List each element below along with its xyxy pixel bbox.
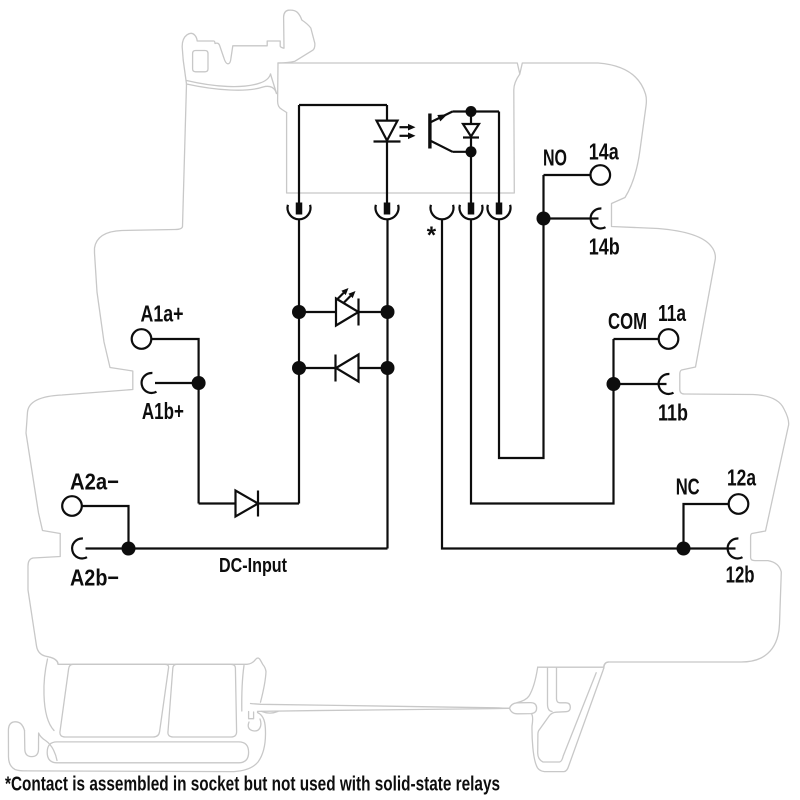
svg-text:14a: 14a <box>589 139 619 165</box>
relay pin 1 blade <box>296 203 303 215</box>
wire diode rung left <box>299 367 336 369</box>
node top of flyback diode <box>466 106 477 117</box>
DIN rail lip tab <box>510 703 537 714</box>
wire series diode to left rail <box>258 502 299 504</box>
foot release hook outer <box>8 722 26 771</box>
wire A1b tap <box>155 382 199 384</box>
LED emission arrow 2 <box>344 296 351 303</box>
svg-text:11a: 11a <box>658 300 686 326</box>
foot latch curl <box>248 719 261 731</box>
wire 12 node up to 12a <box>684 504 729 549</box>
wire 14 node to 14a <box>544 174 591 176</box>
LED emission arrow 1 <box>337 293 344 300</box>
foot latch steps <box>249 712 254 719</box>
wire opto-LED right drop <box>386 105 388 121</box>
test socket 12b <box>728 538 743 558</box>
terminal A2a <box>62 496 82 516</box>
clip saddle spring upper line <box>187 74 271 87</box>
wire opto-LED cathode drop to pin <box>386 142 388 204</box>
clip window opening <box>193 51 208 72</box>
relay pin 3 blade <box>468 203 475 215</box>
svg-text:14b: 14b <box>589 234 620 260</box>
wire output right drop to pin <box>498 112 500 204</box>
relay module housing outline left profile <box>26 84 187 664</box>
svg-text:A2b−: A2b− <box>70 564 119 590</box>
opto light emission arrow 2 <box>400 135 409 137</box>
foot release hook pocket <box>25 731 58 761</box>
relay module housing top and right profile <box>278 63 789 669</box>
wire emitter node drop to pin <box>470 152 472 203</box>
rail clamp left flare <box>517 667 538 702</box>
wire opto-LED left drop to pin <box>298 105 300 203</box>
pin socket at x=299 <box>288 205 311 220</box>
pin socket at x=471 <box>460 205 483 220</box>
junction 11 <box>607 377 621 391</box>
junction A2 <box>122 542 136 556</box>
housing foot top edge <box>47 657 266 703</box>
status LED D2 <box>336 299 359 326</box>
foot left outer wall <box>44 659 54 731</box>
foot slide bar <box>47 742 248 763</box>
junction 12 <box>677 542 691 556</box>
svg-text:*Contact is assembled in socke: *Contact is assembled in socket but not … <box>5 774 500 796</box>
terminal 12a <box>729 494 749 514</box>
node bottom of flyback diode <box>466 146 477 157</box>
wire diode rung right <box>359 367 388 369</box>
test socket 14b <box>591 208 606 228</box>
svg-text:A1a+: A1a+ <box>141 300 184 326</box>
test socket 11b <box>659 374 674 394</box>
wire right rail <box>386 219 388 549</box>
terminal 14a <box>591 165 611 185</box>
junction diode rung left <box>292 361 306 375</box>
junction A1 <box>192 376 206 390</box>
foot inner wall right <box>242 666 244 712</box>
reverse protection diode D3 <box>336 355 359 382</box>
clip saddle wedge <box>271 74 277 94</box>
plug-in relay box outline <box>287 74 520 193</box>
DIN rail top edge <box>251 704 510 709</box>
wire 14b tap <box>544 217 599 219</box>
svg-text:A2a−: A2a− <box>70 468 119 494</box>
svg-text:11b: 11b <box>658 400 688 426</box>
DIN rail joint wedge <box>262 711 279 713</box>
wire LED rung right <box>359 311 388 313</box>
foot left panel <box>60 664 169 737</box>
svg-text:*: * <box>427 222 437 249</box>
foot right panel <box>168 664 237 737</box>
foot outer right edge below rail <box>26 713 266 772</box>
rail clamp inner slot left wall <box>548 667 553 711</box>
wire DC-input minus rail <box>129 547 388 549</box>
wire A2b tap <box>86 547 129 549</box>
phototransistor emitter lead <box>430 141 453 152</box>
wire A1 junction drop <box>198 383 200 504</box>
wire A1a to corner <box>152 339 199 383</box>
wire 11 node to 11a <box>614 338 659 340</box>
pin socket at x=499 <box>488 205 511 220</box>
DIN-rail release clip (top of module) <box>182 10 315 84</box>
junction diode rung right <box>381 361 395 375</box>
test socket A2b <box>72 538 87 558</box>
wire NO pin to 14 node <box>499 175 544 458</box>
svg-text:NC: NC <box>676 474 700 500</box>
wire left rail A1 <box>298 219 300 504</box>
terminal A1a <box>132 329 152 349</box>
DIN rail bottom edge <box>258 708 510 711</box>
test socket A1b <box>142 373 157 393</box>
phototransistor collector lead with arrow <box>430 112 453 123</box>
svg-text:A1b+: A1b+ <box>142 398 184 424</box>
housing top-left corner wall <box>278 63 287 113</box>
junction 14 <box>537 212 551 226</box>
svg-text:12a: 12a <box>727 465 756 491</box>
svg-text:NO: NO <box>543 144 567 170</box>
wire output bottom stub <box>453 151 472 153</box>
pin socket at x=387 <box>375 205 398 220</box>
opto light emission arrow 1 <box>400 126 409 128</box>
opto-coupler LED D5 <box>377 121 398 141</box>
flyback diode D4 <box>470 112 472 125</box>
wire output top rail <box>453 110 500 112</box>
svg-text:COM: COM <box>608 308 647 334</box>
junction LED rung right <box>381 305 395 319</box>
wire COM pin to 11 node <box>471 219 614 504</box>
terminal 11a <box>659 329 679 349</box>
wire A2a to corner <box>82 506 129 549</box>
wire 11b tap <box>614 383 667 385</box>
svg-text:12b: 12b <box>726 562 755 588</box>
wire opto-LED top loop <box>299 104 387 106</box>
relay pin 2 blade <box>384 203 391 215</box>
phototransistor U1 base bar <box>428 114 431 149</box>
wire to series diode <box>199 502 236 504</box>
wire NC socket to 12 node <box>442 219 736 549</box>
rail clamp (bottom right) outer <box>532 662 609 772</box>
junction LED rung left <box>292 305 306 319</box>
relay pin 4 blade <box>496 203 503 215</box>
rail clamp inner boundary <box>538 667 597 762</box>
series diode D1 <box>236 491 259 517</box>
wire LED rung left <box>299 311 336 313</box>
svg-text:DC-Input: DC-Input <box>219 555 287 577</box>
rail clamp top edge <box>538 666 604 668</box>
clip saddle spring lower line <box>187 84 277 94</box>
socket (unused NC contact *) at x=442 <box>431 205 454 220</box>
